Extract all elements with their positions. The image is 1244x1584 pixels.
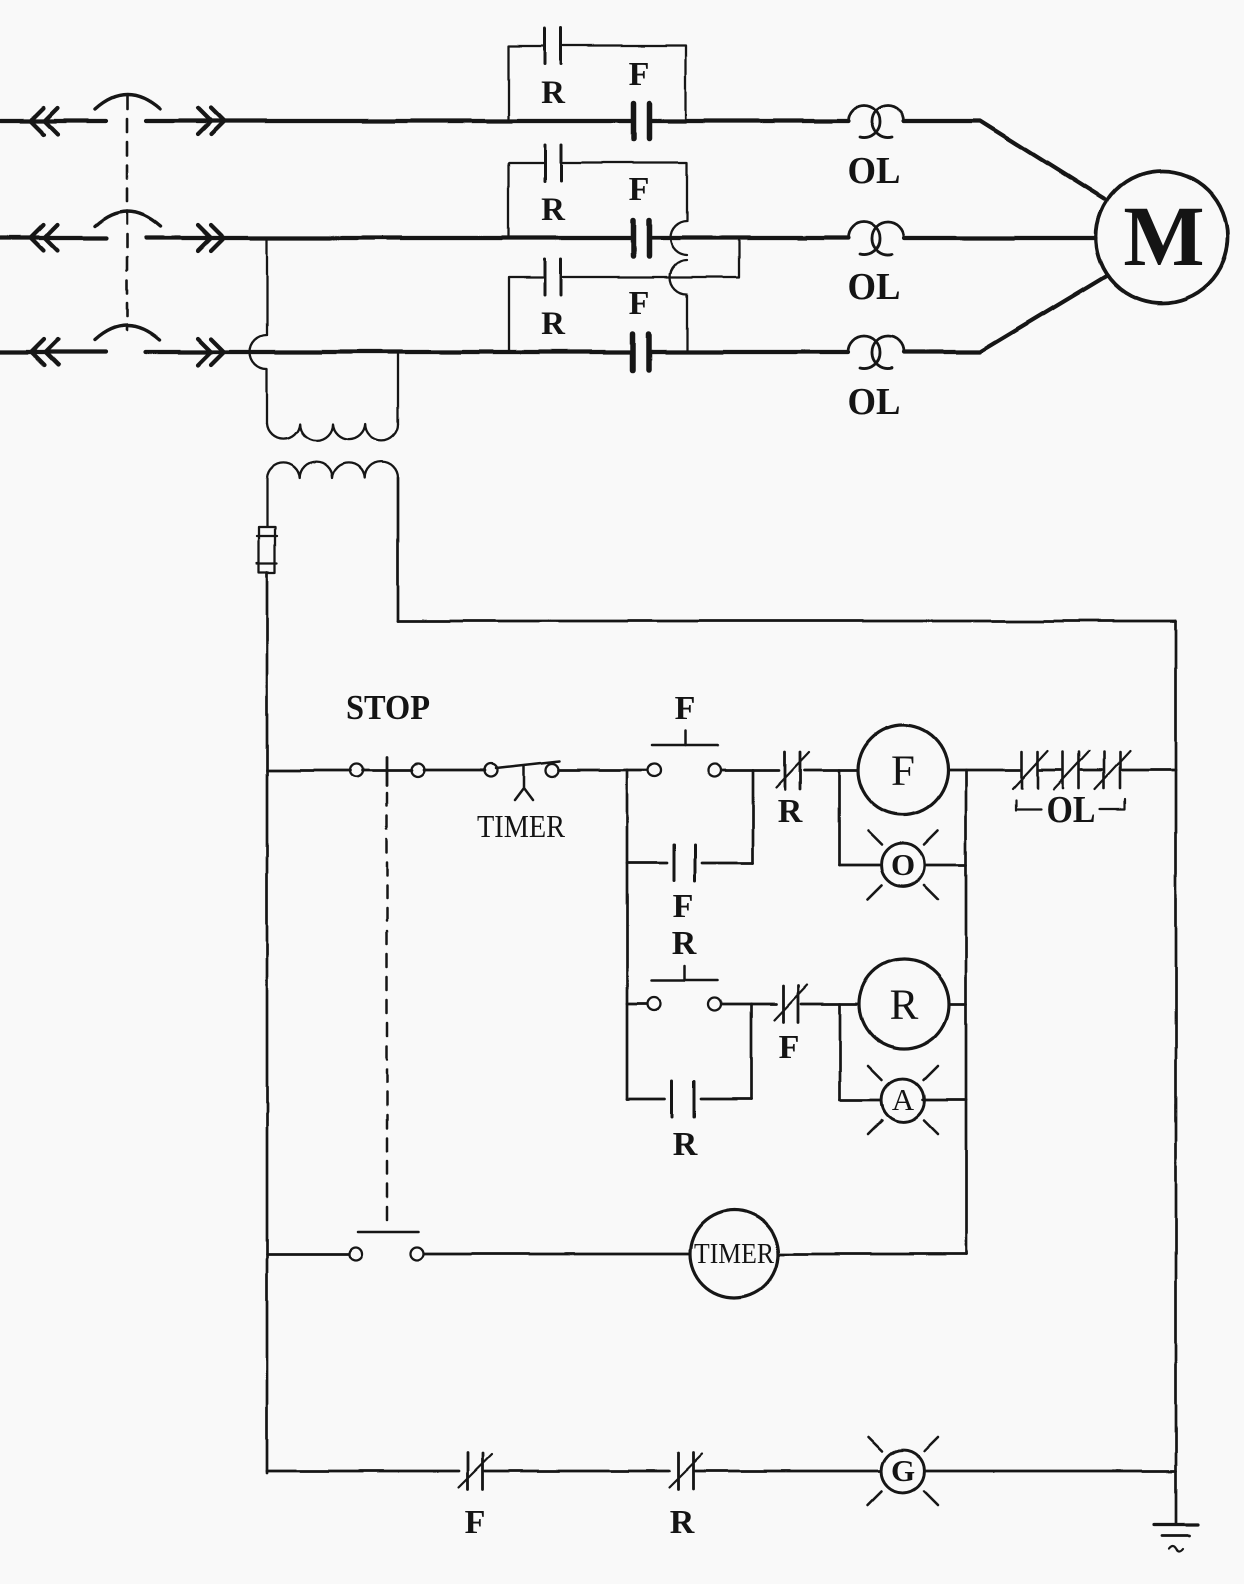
svg-text:F: F <box>629 285 650 322</box>
svg-text:OL: OL <box>848 266 901 308</box>
svg-text:TIMER: TIMER <box>694 1238 775 1270</box>
svg-text:F: F <box>779 1029 800 1066</box>
svg-text:G: G <box>891 1453 915 1488</box>
svg-text:TIMER: TIMER <box>477 808 566 844</box>
svg-text:OL: OL <box>848 150 901 192</box>
svg-text:R: R <box>672 925 697 962</box>
svg-text:R: R <box>673 1126 698 1163</box>
svg-text:STOP: STOP <box>346 688 430 727</box>
svg-text:R: R <box>890 982 919 1029</box>
svg-text:OL: OL <box>848 381 901 423</box>
svg-text:F: F <box>891 748 915 795</box>
svg-text:O: O <box>891 847 915 882</box>
svg-text:OL: OL <box>1047 789 1096 831</box>
svg-text:F: F <box>675 690 696 727</box>
svg-text:R: R <box>541 75 566 111</box>
svg-text:A: A <box>892 1082 915 1117</box>
svg-text:R: R <box>778 793 803 830</box>
svg-text:R: R <box>670 1504 695 1541</box>
svg-text:F: F <box>465 1504 486 1541</box>
svg-text:F: F <box>629 56 650 93</box>
svg-text:R: R <box>541 306 566 342</box>
svg-text:R: R <box>541 192 566 228</box>
svg-text:F: F <box>673 888 694 925</box>
svg-text:F: F <box>629 171 650 208</box>
svg-text:M: M <box>1123 188 1204 284</box>
